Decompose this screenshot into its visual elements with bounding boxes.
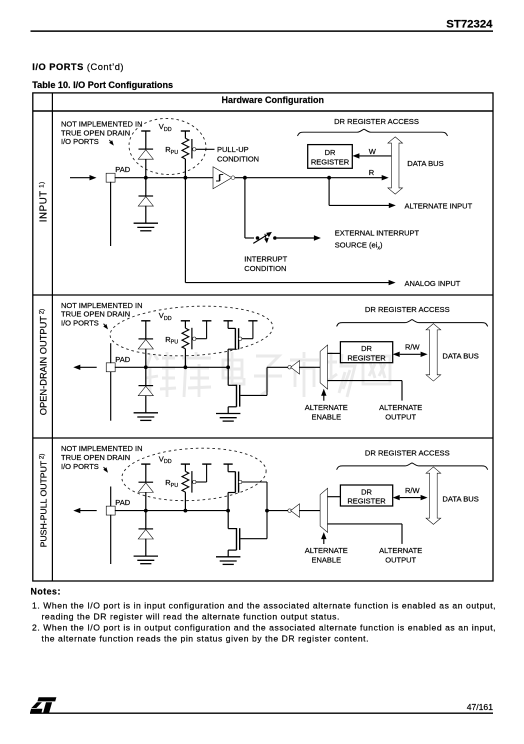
svg-text:Notes:: Notes: bbox=[31, 587, 61, 597]
svg-text:CONDITION: CONDITION bbox=[244, 264, 286, 273]
svg-text:PAD: PAD bbox=[115, 165, 130, 174]
svg-text:INTERRUPT: INTERRUPT bbox=[244, 254, 287, 263]
svg-text:I/O PORTS: I/O PORTS bbox=[61, 319, 99, 328]
svg-text:R: R bbox=[369, 168, 375, 177]
svg-text:DR: DR bbox=[325, 148, 336, 157]
svg-text:REGISTER: REGISTER bbox=[311, 157, 350, 166]
svg-text:DATA BUS: DATA BUS bbox=[442, 495, 478, 504]
svg-text:the alternate function reads t: the alternate function reads the pin sta… bbox=[42, 634, 370, 644]
svg-text:NOT IMPLEMENTED IN: NOT IMPLEMENTED IN bbox=[61, 301, 143, 310]
svg-text:ENABLE: ENABLE bbox=[311, 412, 341, 421]
svg-text:I/O PORTS: I/O PORTS bbox=[61, 462, 99, 471]
svg-text:NOT IMPLEMENTED IN: NOT IMPLEMENTED IN bbox=[61, 120, 143, 129]
svg-text:CONDITION: CONDITION bbox=[217, 155, 259, 164]
svg-text:I/O PORTS: I/O PORTS bbox=[61, 137, 99, 146]
svg-text:TRUE OPEN DRAIN: TRUE OPEN DRAIN bbox=[61, 310, 130, 319]
svg-text:47/161: 47/161 bbox=[467, 702, 494, 712]
svg-text:I/O PORTS (Cont’d): I/O PORTS (Cont’d) bbox=[32, 62, 124, 72]
svg-text:NOT IMPLEMENTED IN: NOT IMPLEMENTED IN bbox=[61, 444, 143, 453]
svg-text:1. When the I/O port is in inp: 1. When the I/O port is in input configu… bbox=[32, 601, 496, 611]
svg-text:Table 10. I/O Port Configurati: Table 10. I/O Port Configurations bbox=[32, 80, 173, 90]
svg-text:ANALOG INPUT: ANALOG INPUT bbox=[405, 279, 461, 288]
svg-text:ALTERNATE: ALTERNATE bbox=[305, 403, 348, 412]
svg-text:PULL-UP: PULL-UP bbox=[217, 145, 249, 154]
svg-text:R/W: R/W bbox=[405, 343, 421, 352]
svg-text:EXTERNAL INTERRUPT: EXTERNAL INTERRUPT bbox=[335, 229, 420, 238]
svg-text:TRUE OPEN DRAIN: TRUE OPEN DRAIN bbox=[61, 453, 130, 462]
svg-text:DR REGISTER ACCESS: DR REGISTER ACCESS bbox=[365, 305, 450, 314]
svg-text:DATA BUS: DATA BUS bbox=[442, 351, 478, 360]
svg-text:PAD: PAD bbox=[115, 498, 130, 507]
svg-text:DATA BUS: DATA BUS bbox=[407, 159, 443, 168]
svg-text:R/W: R/W bbox=[405, 486, 421, 495]
svg-text:REGISTER: REGISTER bbox=[347, 353, 386, 362]
svg-text:ALTERNATE INPUT: ALTERNATE INPUT bbox=[405, 202, 473, 211]
svg-text:OUTPUT: OUTPUT bbox=[385, 556, 416, 565]
svg-text:W: W bbox=[369, 147, 377, 156]
svg-text:DR: DR bbox=[361, 344, 372, 353]
svg-text:DR REGISTER ACCESS: DR REGISTER ACCESS bbox=[365, 448, 450, 457]
svg-text:ALTERNATE: ALTERNATE bbox=[379, 403, 422, 412]
svg-text:reading the DR register will r: reading the DR register will read the al… bbox=[42, 612, 340, 622]
svg-text:Hardware Configuration: Hardware Configuration bbox=[222, 95, 325, 105]
svg-text:OPEN-DRAIN OUTPUT 2): OPEN-DRAIN OUTPUT 2) bbox=[38, 309, 48, 415]
svg-text:ALTERNATE: ALTERNATE bbox=[379, 546, 422, 555]
svg-text:PAD: PAD bbox=[115, 355, 130, 364]
svg-text:OUTPUT: OUTPUT bbox=[385, 412, 416, 421]
svg-text:ST72324: ST72324 bbox=[446, 19, 493, 31]
svg-text:REGISTER: REGISTER bbox=[347, 497, 386, 506]
svg-text:PUSH-PULL OUTPUT 2): PUSH-PULL OUTPUT 2) bbox=[38, 454, 48, 548]
svg-text:2. When the I/O port is in out: 2. When the I/O port is in output config… bbox=[32, 623, 496, 633]
svg-text:DR: DR bbox=[361, 487, 372, 496]
svg-text:ENABLE: ENABLE bbox=[311, 556, 341, 565]
svg-text:ALTERNATE: ALTERNATE bbox=[305, 546, 348, 555]
svg-text:TRUE OPEN DRAIN: TRUE OPEN DRAIN bbox=[61, 128, 130, 137]
svg-text:DR REGISTER ACCESS: DR REGISTER ACCESS bbox=[334, 117, 419, 126]
